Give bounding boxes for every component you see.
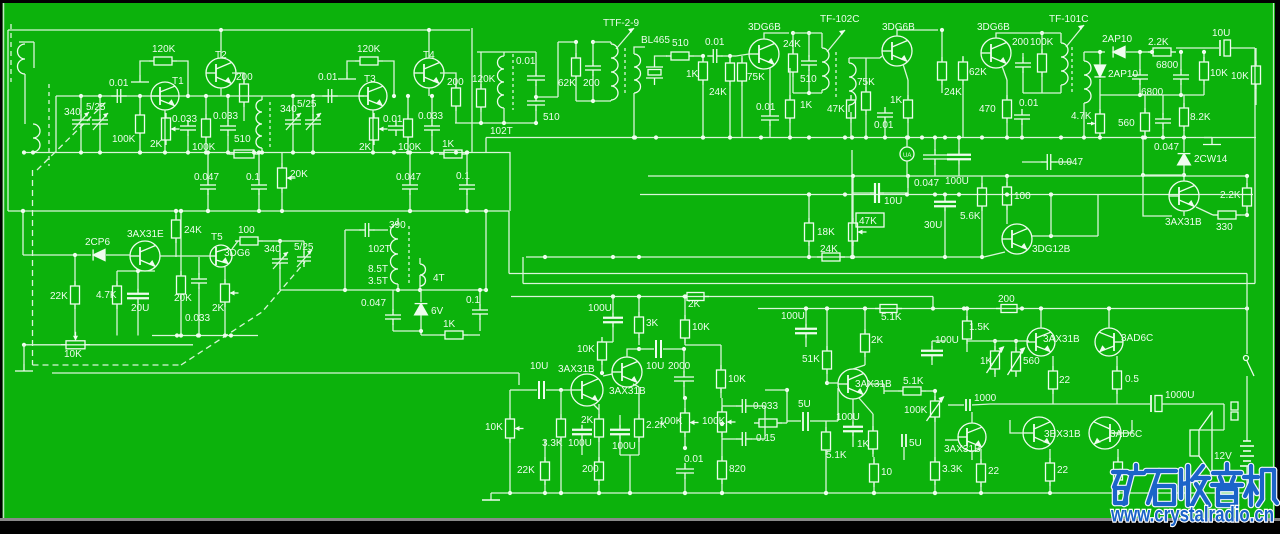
node bus y211 bbox=[21, 209, 25, 213]
dashed core osc2 bbox=[408, 226, 410, 284]
svg-text:100: 100 bbox=[238, 225, 255, 236]
svg-text:340: 340 bbox=[264, 244, 281, 255]
wire corner battery branch bbox=[1246, 274, 1248, 355]
svg-text:3DG6B: 3DG6B bbox=[748, 22, 781, 33]
wire audio rail y296 bbox=[511, 296, 933, 298]
transformer TF-101C secondary bbox=[1084, 61, 1091, 103]
node bus y296 bbox=[637, 294, 641, 298]
wire 5U link bbox=[765, 389, 787, 391]
wire 0.033 down bbox=[187, 134, 189, 153]
svg-text:1K: 1K bbox=[857, 439, 870, 450]
wire Q8 collector bbox=[897, 30, 938, 36]
svg-text:10K: 10K bbox=[1210, 68, 1228, 79]
wire bias row bbox=[967, 340, 1029, 342]
svg-text:51K: 51K bbox=[802, 354, 820, 365]
wire Q15 base bbox=[1027, 340, 1029, 342]
svg-text:12V: 12V bbox=[1214, 451, 1232, 462]
svg-text:3.3K: 3.3K bbox=[942, 464, 963, 475]
svg-text:100K: 100K bbox=[112, 134, 136, 145]
svg-text:3AX31B: 3AX31B bbox=[609, 386, 646, 397]
wire tank2 bottom bbox=[793, 92, 822, 94]
wire Q9 emitter bbox=[1002, 66, 1007, 80]
svg-text:0.01: 0.01 bbox=[109, 78, 129, 89]
svg-text:0.01: 0.01 bbox=[516, 56, 536, 67]
node sec bbox=[632, 135, 636, 139]
svg-text:4.7K: 4.7K bbox=[1071, 111, 1092, 122]
wire Q6 emitter row bbox=[117, 270, 155, 272]
speaker bbox=[1190, 412, 1212, 474]
svg-text:3AD6C: 3AD6C bbox=[1121, 333, 1153, 344]
svg-text:3AX31B: 3AX31B bbox=[1043, 334, 1080, 345]
wire tank bottom bbox=[576, 100, 611, 102]
wire audio ground bus y493 bbox=[510, 492, 1247, 494]
svg-text:100K: 100K bbox=[192, 142, 216, 153]
dashed ferrite rod core bbox=[10, 24, 12, 82]
wire Q11 base bbox=[1183, 175, 1185, 181]
wire T1 emitter bbox=[164, 110, 166, 153]
wire varcap1 bbox=[80, 96, 82, 116]
svg-text:100U: 100U bbox=[781, 311, 805, 322]
wire varcap3 bbox=[292, 96, 294, 116]
wire antenna top bbox=[33, 42, 35, 68]
wire osc top bbox=[477, 51, 536, 53]
wire Q11 emitter bbox=[1183, 211, 1185, 216]
wire bus y176 bbox=[648, 175, 1247, 177]
svg-text:30U: 30U bbox=[924, 220, 942, 231]
svg-text:0.01: 0.01 bbox=[705, 37, 725, 48]
wire front-end bottom rail y152 bbox=[24, 152, 486, 154]
svg-text:200: 200 bbox=[998, 294, 1015, 305]
wire varcap2 bbox=[99, 96, 101, 116]
svg-text:22: 22 bbox=[988, 466, 1000, 477]
resistor (tone mix) bbox=[754, 419, 782, 427]
wire 120K-2 left bbox=[347, 61, 355, 72]
wire Q15 collector bbox=[1040, 309, 1042, 329]
wire Q10 emitter bbox=[984, 252, 1005, 257]
svg-text:200: 200 bbox=[582, 464, 599, 475]
wire tone top bbox=[685, 344, 721, 346]
svg-text:2K: 2K bbox=[359, 142, 372, 153]
coil RF transformer 2 bbox=[256, 100, 262, 148]
wire right bus x1255 bbox=[1254, 48, 1256, 284]
wire front-end signal line y96 bbox=[56, 95, 364, 97]
node bus y308 bbox=[804, 306, 808, 310]
wire top rail y30 bbox=[8, 29, 470, 31]
node AGC bbox=[175, 333, 179, 337]
wire left bus x8 bbox=[7, 30, 9, 211]
dashed gang link diagonal bbox=[181, 262, 305, 365]
svg-text:10K: 10K bbox=[1231, 71, 1249, 82]
wire 120K left bbox=[140, 61, 149, 75]
wire T4-out bbox=[455, 106, 457, 123]
svg-text:100U: 100U bbox=[588, 303, 612, 314]
wire Q8 base bbox=[880, 56, 882, 58]
node y152 bbox=[138, 150, 142, 154]
svg-text:0.033: 0.033 bbox=[418, 111, 443, 122]
svg-text:5U: 5U bbox=[798, 399, 811, 410]
svg-text:0.01: 0.01 bbox=[756, 102, 776, 113]
svg-text:0.01: 0.01 bbox=[383, 114, 403, 125]
wire oscillator box right x486 bbox=[485, 211, 487, 290]
svg-text:10K: 10K bbox=[485, 422, 503, 433]
svg-text:TF-102C: TF-102C bbox=[820, 14, 859, 25]
svg-text:5.1K: 5.1K bbox=[826, 450, 847, 461]
svg-text:340: 340 bbox=[280, 104, 297, 115]
svg-text:100K: 100K bbox=[659, 416, 683, 427]
svg-text:100U: 100U bbox=[836, 412, 860, 423]
wire AGC gnd bbox=[23, 345, 25, 364]
svg-text:3K: 3K bbox=[646, 318, 659, 329]
svg-text:22K: 22K bbox=[517, 465, 535, 476]
svg-text:TF-101C: TF-101C bbox=[1049, 14, 1088, 25]
wire 120K-2 right bbox=[383, 61, 394, 96]
wire bus y194 bbox=[640, 194, 1253, 196]
ground (audio) bbox=[491, 492, 510, 494]
svg-text:0.01: 0.01 bbox=[684, 454, 704, 465]
wire Q12 emitter bbox=[593, 404, 599, 410]
svg-text:120K: 120K bbox=[357, 44, 381, 55]
wire vertical x523 bbox=[522, 257, 524, 284]
svg-text:62K: 62K bbox=[969, 67, 987, 78]
svg-text:24K: 24K bbox=[944, 87, 962, 98]
svg-text:20U: 20U bbox=[131, 303, 149, 314]
svg-text:5/25: 5/25 bbox=[297, 99, 317, 110]
svg-text:3AX31B: 3AX31B bbox=[944, 444, 981, 455]
svg-text:102T: 102T bbox=[368, 244, 391, 255]
svg-text:3DG12B: 3DG12B bbox=[1032, 244, 1071, 255]
wire Q7 base bbox=[736, 54, 749, 56]
svg-text:UA: UA bbox=[903, 153, 911, 159]
wire Q7 collector bbox=[764, 33, 789, 39]
svg-text:8.2K: 8.2K bbox=[1190, 112, 1211, 123]
wire varcap osc bbox=[279, 241, 281, 255]
svg-text:5.6K: 5.6K bbox=[960, 211, 981, 222]
svg-text:75K: 75K bbox=[747, 72, 765, 83]
wire Q10 collector bbox=[1032, 235, 1098, 237]
watermark 矿石收音机 (drawn strokes) bbox=[1113, 464, 1277, 505]
wire varcap4 bbox=[312, 96, 314, 116]
svg-text:47K: 47K bbox=[859, 216, 877, 227]
wire AGC branch x1143 bbox=[1142, 138, 1144, 176]
transformer TTF-2-9 primary bbox=[611, 44, 618, 100]
svg-text:0.1: 0.1 bbox=[246, 172, 260, 183]
wire corner x510 bbox=[486, 153, 510, 212]
wire vertical x486 bbox=[485, 138, 487, 153]
microammeter UA bbox=[900, 147, 914, 161]
svg-text:100U: 100U bbox=[612, 441, 636, 452]
node bus y257 bbox=[543, 255, 547, 259]
wire 0.033c bbox=[431, 96, 433, 122]
svg-text:5.1K: 5.1K bbox=[881, 312, 902, 323]
node bus y493 bbox=[559, 491, 563, 495]
wire Q14 base bbox=[826, 420, 838, 422]
svg-text:8.5T: 8.5T bbox=[368, 264, 388, 275]
frame line right bbox=[1273, 3, 1275, 518]
wire osc coil bottom bbox=[397, 284, 399, 290]
svg-text:820: 820 bbox=[729, 464, 746, 475]
svg-text:0.01: 0.01 bbox=[1019, 98, 1039, 109]
svg-text:0.047: 0.047 bbox=[396, 172, 421, 183]
wire T4 collector bbox=[428, 30, 430, 58]
dashed core osc coil bbox=[512, 54, 514, 110]
svg-text:100: 100 bbox=[1014, 191, 1031, 202]
svg-text:200: 200 bbox=[1012, 37, 1029, 48]
svg-text:10K: 10K bbox=[728, 374, 746, 385]
wire volume line y345 bbox=[24, 344, 193, 346]
dashed core TTF-2-9 bbox=[624, 48, 626, 96]
node bus y194 bbox=[807, 192, 811, 196]
wire em join bbox=[620, 454, 639, 456]
wire main top bus y137 bbox=[486, 137, 1256, 139]
transformer TF-101C primary bbox=[1061, 43, 1068, 85]
svg-text:0.033: 0.033 bbox=[185, 313, 210, 324]
svg-text:510: 510 bbox=[672, 38, 689, 49]
wire T5 base bbox=[160, 255, 210, 257]
svg-text:100U: 100U bbox=[945, 176, 969, 187]
wire x852 bbox=[851, 150, 853, 257]
svg-text:120K: 120K bbox=[472, 74, 496, 85]
svg-text:10U: 10U bbox=[530, 361, 548, 372]
wire Q16 collector bbox=[1108, 309, 1110, 329]
svg-text:10K: 10K bbox=[577, 344, 595, 355]
wire osc right bbox=[557, 42, 559, 97]
dashed coil core x49 bbox=[48, 84, 50, 166]
svg-text:T5: T5 bbox=[211, 232, 223, 243]
svg-text:1000U: 1000U bbox=[1165, 390, 1194, 401]
svg-text:www.crystalradio.cn: www.crystalradio.cn bbox=[1110, 504, 1274, 527]
svg-text:102T: 102T bbox=[490, 126, 513, 137]
svg-text:3AX31E: 3AX31E bbox=[127, 229, 164, 240]
svg-text:24K: 24K bbox=[783, 39, 801, 50]
wire audio input line y373 bbox=[52, 372, 519, 374]
svg-text:5/25: 5/25 bbox=[86, 102, 106, 113]
svg-text:0.01: 0.01 bbox=[874, 120, 894, 131]
electrolytic 10U (coupling2) bbox=[656, 340, 661, 358]
wire det bottom bbox=[1100, 94, 1204, 96]
wire rail y273 bbox=[509, 273, 1247, 275]
svg-text:4T: 4T bbox=[433, 273, 445, 284]
svg-text:120K: 120K bbox=[152, 44, 176, 55]
svg-text:10: 10 bbox=[881, 467, 893, 478]
svg-text:200: 200 bbox=[583, 78, 600, 89]
svg-text:2.2K: 2.2K bbox=[1220, 190, 1241, 201]
svg-text:1K: 1K bbox=[686, 69, 699, 80]
wire osc2 gnd bbox=[393, 330, 421, 332]
wire 100K-3 bbox=[407, 96, 409, 114]
wire 100K up bbox=[139, 96, 141, 110]
wire osc2 box bbox=[344, 230, 346, 257]
wire 0.033b bbox=[227, 96, 229, 122]
wire vertical x933 bbox=[932, 297, 934, 309]
frame line bottom (gray) bbox=[0, 518, 1280, 521]
svg-text:10U: 10U bbox=[884, 196, 902, 207]
transformer TF-102C arrow bbox=[827, 30, 845, 52]
svg-text:1000: 1000 bbox=[974, 393, 997, 404]
wire fb right bbox=[786, 390, 788, 423]
switch bbox=[1244, 356, 1249, 361]
svg-text:2000: 2000 bbox=[668, 361, 691, 372]
wire Q15b bbox=[945, 439, 958, 441]
svg-text:0.033: 0.033 bbox=[213, 111, 238, 122]
transformer TF-101C arrow bbox=[1066, 25, 1084, 47]
svg-text:1K: 1K bbox=[442, 139, 455, 150]
svg-text:24K: 24K bbox=[184, 225, 202, 236]
wire osc2 out bbox=[272, 240, 304, 242]
svg-text:0.01: 0.01 bbox=[318, 72, 338, 83]
svg-text:510: 510 bbox=[234, 134, 251, 145]
antenna ferrite coil bbox=[19, 41, 34, 43]
svg-text:1K: 1K bbox=[890, 95, 903, 106]
dashed core TF-102C bbox=[835, 52, 837, 100]
svg-text:4.7K: 4.7K bbox=[96, 290, 117, 301]
svg-text:560: 560 bbox=[1118, 118, 1135, 129]
wire Q13 base bbox=[603, 374, 612, 376]
svg-text:470: 470 bbox=[979, 104, 996, 115]
wire 2CP6 left bbox=[22, 211, 24, 255]
wire x908b bbox=[907, 176, 909, 188]
svg-text:0.047: 0.047 bbox=[194, 172, 219, 183]
wire stage2 link bbox=[243, 104, 245, 121]
wire AGC line y335 bbox=[152, 335, 258, 337]
wire AGC bus y211 bbox=[8, 210, 509, 212]
svg-text:0.5: 0.5 bbox=[1125, 374, 1139, 385]
wire rail y257 bbox=[526, 256, 984, 258]
wire audio rail y308 bbox=[758, 308, 1247, 310]
svg-text:100K: 100K bbox=[904, 405, 928, 416]
transformer TTF-2-9 arrow bbox=[616, 28, 634, 49]
coil oscillator 102T bbox=[498, 56, 504, 108]
svg-text:340: 340 bbox=[64, 107, 81, 118]
svg-text:62K: 62K bbox=[558, 78, 576, 89]
node osc bbox=[502, 121, 506, 125]
potentiometer 47K bbox=[856, 213, 884, 227]
svg-text:2CP6: 2CP6 bbox=[85, 237, 110, 248]
transformer TF-102C secondary bbox=[849, 63, 856, 105]
svg-text:22K: 22K bbox=[50, 291, 68, 302]
svg-text:3DG6B: 3DG6B bbox=[882, 22, 915, 33]
ground (AGC) bbox=[1204, 137, 1212, 139]
svg-text:2K: 2K bbox=[871, 335, 884, 346]
dashed core RF coil 2 bbox=[269, 102, 271, 148]
svg-text:6800: 6800 bbox=[1156, 60, 1179, 71]
svg-text:2K: 2K bbox=[581, 415, 594, 426]
svg-text:3AX31B: 3AX31B bbox=[1165, 217, 1202, 228]
svg-text:0.033: 0.033 bbox=[172, 114, 197, 125]
wire y373 to pot bbox=[518, 373, 520, 385]
svg-text:2K: 2K bbox=[212, 303, 225, 314]
svg-text:0.047: 0.047 bbox=[361, 298, 386, 309]
node det bbox=[1098, 50, 1102, 54]
wire Q12 base bbox=[561, 389, 571, 391]
wire 100K-2 bbox=[205, 96, 207, 114]
svg-text:0.047: 0.047 bbox=[1154, 142, 1179, 153]
svg-text:22: 22 bbox=[1057, 465, 1069, 476]
wire oscillator bottom y123 bbox=[455, 122, 536, 124]
resistor 0.5 (out) bbox=[1114, 457, 1123, 485]
svg-text:2.2K: 2.2K bbox=[1148, 37, 1169, 48]
wire Q6 down bbox=[144, 270, 146, 272]
svg-text:3AD6C: 3AD6C bbox=[1110, 429, 1142, 440]
frame line left bbox=[3, 3, 5, 518]
svg-text:330: 330 bbox=[1216, 222, 1233, 233]
wire vertical x509 bbox=[508, 211, 510, 274]
svg-text:1K: 1K bbox=[443, 319, 456, 330]
node y176 bbox=[906, 174, 910, 178]
wire 120K right bbox=[177, 61, 188, 96]
wire driver-out rows bbox=[974, 308, 976, 310]
svg-text:0.047: 0.047 bbox=[914, 178, 939, 189]
transformer TF-102C primary bbox=[822, 48, 829, 90]
wire T2 emitter link bbox=[220, 88, 222, 96]
svg-text:2K: 2K bbox=[150, 139, 163, 150]
svg-text:3DG6: 3DG6 bbox=[224, 248, 251, 259]
wire T2 collector bbox=[220, 30, 222, 58]
wire driver out bbox=[867, 383, 884, 385]
wire rail y283 bbox=[523, 283, 1255, 285]
wire T4 emitter link bbox=[428, 88, 430, 96]
wire tank left vertical bbox=[55, 96, 57, 153]
wire out couple row bbox=[990, 403, 1124, 405]
svg-text:3AX31B: 3AX31B bbox=[558, 364, 595, 375]
dashed core TF-101C bbox=[1071, 47, 1073, 95]
svg-text:18K: 18K bbox=[817, 227, 835, 238]
wire vol wiper bbox=[510, 389, 519, 391]
svg-text:3.5T: 3.5T bbox=[368, 276, 388, 287]
transformer TTF-2-9 secondary bbox=[634, 54, 641, 93]
svg-text:10K: 10K bbox=[692, 322, 710, 333]
svg-text:10U: 10U bbox=[646, 361, 664, 372]
svg-text:5.1K: 5.1K bbox=[903, 376, 924, 387]
dashed gang front diagonal bbox=[37, 100, 108, 170]
svg-text:0.1: 0.1 bbox=[466, 295, 480, 306]
jack bbox=[1231, 402, 1238, 420]
wire Q14 em bbox=[859, 398, 873, 414]
svg-text:2CW14: 2CW14 bbox=[1194, 154, 1228, 165]
svg-text:24K: 24K bbox=[709, 87, 727, 98]
svg-text:100U: 100U bbox=[568, 438, 592, 449]
wire tank3 bottom bbox=[1023, 92, 1042, 94]
svg-text:1K: 1K bbox=[800, 100, 813, 111]
svg-text:TTF-2-9: TTF-2-9 bbox=[603, 18, 640, 29]
svg-text:5U: 5U bbox=[909, 438, 922, 449]
svg-text:47K: 47K bbox=[827, 104, 845, 115]
wire 100K down bbox=[139, 138, 141, 153]
svg-text:6V: 6V bbox=[431, 306, 444, 317]
svg-text:22: 22 bbox=[1059, 375, 1071, 386]
wire vertical x472 bbox=[471, 28, 473, 153]
wire bottom row osc bbox=[280, 289, 486, 291]
svg-text:0.1: 0.1 bbox=[456, 171, 470, 182]
wire osc fb bbox=[536, 96, 558, 98]
svg-text:3DG6B: 3DG6B bbox=[977, 22, 1010, 33]
node bus137 bbox=[633, 135, 637, 139]
wire Q13 collector bbox=[627, 349, 639, 357]
wire Q9 collector bbox=[996, 33, 1042, 38]
svg-text:10U: 10U bbox=[1212, 28, 1230, 39]
dashed gang link horizontal y365 bbox=[33, 364, 182, 366]
dashed gang link vertical x32 bbox=[32, 170, 34, 365]
svg-text:BL465: BL465 bbox=[641, 35, 670, 46]
svg-text:560: 560 bbox=[1023, 356, 1040, 367]
wire antenna bottom bbox=[32, 151, 34, 154]
svg-text:510: 510 bbox=[543, 112, 560, 123]
svg-text:2AP10: 2AP10 bbox=[1102, 34, 1132, 45]
node front tank bbox=[79, 94, 83, 98]
capacitor (det filter) bbox=[1155, 113, 1171, 129]
wire Q8 emitter bbox=[903, 64, 908, 80]
svg-text:10K: 10K bbox=[64, 349, 82, 360]
wire T3 emitter bbox=[372, 110, 374, 153]
